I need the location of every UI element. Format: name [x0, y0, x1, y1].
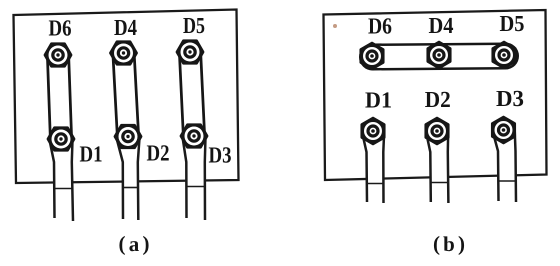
terminal D6 (a) [45, 44, 71, 67]
svg-text:D5: D5 [500, 11, 525, 36]
link bar D6-D1 [58, 55, 61, 139]
svg-text:D2: D2 [147, 141, 170, 166]
svg-text:(: ( [433, 232, 440, 256]
caption (a) [119, 232, 150, 257]
wire from terminal D2 (b) [426, 131, 449, 203]
svg-text:D4: D4 [114, 15, 137, 40]
terminal D4 (b) [428, 42, 451, 68]
terminal box (b) [324, 10, 547, 180]
wire from terminal D2 (a) [117, 138, 140, 220]
link bar D6-D4-D5 (b) [373, 56, 506, 57]
svg-text:D1: D1 [365, 88, 392, 113]
caption (b) [433, 232, 465, 257]
svg-text:D6: D6 [49, 16, 72, 41]
terminal D4 (a) [111, 42, 137, 65]
svg-text:D2: D2 [425, 87, 451, 112]
terminal D5 (b) [493, 42, 516, 68]
svg-text:D3: D3 [496, 86, 524, 111]
svg-text:D6: D6 [368, 14, 392, 39]
terminal D1 (a) [48, 128, 74, 151]
terminal D2 (a) [115, 125, 141, 148]
terminal box (a) [14, 10, 239, 184]
link bar D5-D3 [190, 52, 194, 136]
terminal D3 (a) [181, 125, 207, 148]
terminal D5 (a) [177, 41, 203, 64]
svg-text:D1: D1 [80, 142, 103, 167]
svg-text:): ) [143, 232, 150, 256]
terminal D6 (b) [361, 43, 384, 69]
svg-text:D3: D3 [209, 143, 232, 168]
terminal D3 (b) [492, 117, 515, 143]
terminal D2 (b) [426, 118, 449, 144]
link bar D4-D2 [124, 53, 129, 137]
svg-text:a: a [129, 232, 140, 256]
wire from terminal D1 (b) [362, 131, 384, 203]
paper speck [333, 24, 337, 28]
wire from terminal D1 (a) [50, 140, 74, 221]
wire from terminal D3 (b) [492, 130, 516, 202]
svg-text:): ) [458, 232, 465, 256]
svg-text:D5: D5 [183, 13, 205, 38]
wire from terminal D3 (a) [183, 137, 206, 220]
svg-text:(: ( [119, 232, 126, 256]
svg-text:D4: D4 [429, 13, 454, 38]
svg-text:b: b [443, 232, 455, 256]
terminal D1 (b) [362, 118, 385, 144]
